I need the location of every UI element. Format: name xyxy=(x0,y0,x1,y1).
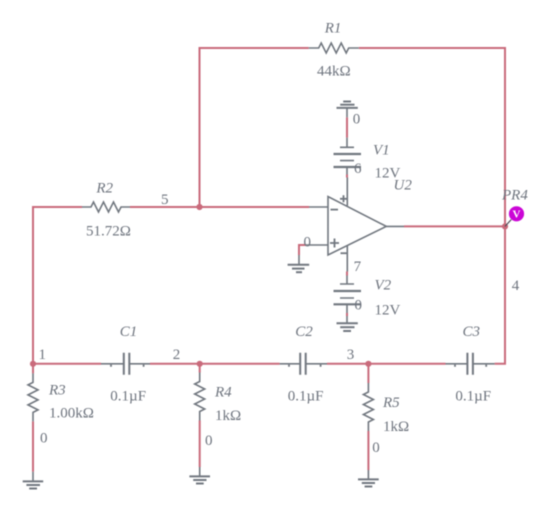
ground below R5 xyxy=(358,470,379,487)
svg-text:12V: 12V xyxy=(375,303,401,319)
op-amp U2 xyxy=(306,178,404,272)
pin stub inverting input xyxy=(309,206,328,208)
svg-text:0: 0 xyxy=(40,431,48,447)
svg-text:C1: C1 xyxy=(120,324,138,340)
svg-text:0: 0 xyxy=(372,440,380,456)
wire R2 row left segment + left column down to node 1 xyxy=(33,207,101,364)
ground below V2 xyxy=(337,316,358,331)
svg-text:PR4: PR4 xyxy=(501,188,528,204)
svg-text:5: 5 xyxy=(161,192,169,208)
wire R3 top stub xyxy=(32,364,34,374)
battery V1 xyxy=(334,138,362,175)
wire op-amp to V2 xyxy=(346,272,348,276)
svg-text:0.1µF: 0.1µF xyxy=(455,388,491,404)
svg-text:0.1µF: 0.1µF xyxy=(110,388,146,404)
svg-text:V: V xyxy=(513,209,521,221)
resistor R1 xyxy=(309,43,359,53)
capacitor C3 xyxy=(446,353,495,375)
svg-text:51.72Ω: 51.72Ω xyxy=(86,224,131,240)
node 1 junction dot xyxy=(30,361,36,367)
wire R5 top stub xyxy=(367,364,369,383)
probe PR4 xyxy=(505,206,524,226)
op-amp plus supply marking xyxy=(340,195,347,202)
wire top loop left: node5 up and over to R1 xyxy=(200,48,309,208)
wire top ground to V1 xyxy=(346,117,348,137)
resistor R3 xyxy=(28,373,38,421)
capacitor pin ticks C3 xyxy=(455,365,486,367)
wire R3 to ground xyxy=(32,421,34,471)
svg-text:1kΩ: 1kΩ xyxy=(215,408,241,424)
ground above V1 (inverted) xyxy=(337,102,358,118)
wire R5 to ground xyxy=(367,431,369,470)
pin stub positive supply xyxy=(346,178,348,206)
svg-text:3: 3 xyxy=(347,347,355,363)
wire top loop right: R1 over and down to bottom right corner xyxy=(359,48,505,364)
ground below R3 xyxy=(23,472,44,489)
svg-text:R4: R4 xyxy=(214,385,232,401)
ground below R4 xyxy=(189,467,210,484)
wire V2 to ground xyxy=(346,313,348,316)
op-amp minus supply marking xyxy=(341,252,347,254)
svg-text:V2: V2 xyxy=(375,278,392,294)
node 3 junction dot xyxy=(365,361,371,367)
svg-text:0: 0 xyxy=(353,111,361,127)
svg-text:0: 0 xyxy=(205,433,213,449)
svg-text:1.00kΩ: 1.00kΩ xyxy=(49,406,94,422)
svg-text:C2: C2 xyxy=(295,324,313,340)
pin stub negative supply xyxy=(346,246,348,272)
node 2 junction dot xyxy=(197,361,203,367)
node PR4 junction dot xyxy=(502,223,508,229)
svg-text:C3: C3 xyxy=(463,324,481,340)
svg-text:1: 1 xyxy=(39,347,47,363)
wire V1 to op-amp supply xyxy=(346,175,348,178)
wire bottom row segment 2 (node 2) xyxy=(150,363,280,365)
svg-text:2: 2 xyxy=(173,347,181,363)
op-amp plus input marking xyxy=(330,239,339,248)
capacitor pin ticks C1 xyxy=(111,365,144,367)
wire op-amp output to node 4 xyxy=(404,225,505,227)
svg-text:R5: R5 xyxy=(382,395,400,411)
capacitor C2 xyxy=(280,353,327,375)
battery V2 xyxy=(334,276,362,314)
svg-text:R1: R1 xyxy=(324,21,342,37)
wire op-amp plus input to ground corner xyxy=(299,245,306,255)
svg-text:0: 0 xyxy=(304,235,312,251)
resistor R4 xyxy=(195,373,205,421)
svg-text:R2: R2 xyxy=(95,181,113,197)
resistor R2 xyxy=(82,202,130,212)
capacitor C1 xyxy=(101,353,150,375)
wire bottom row segment 3 (node 3) xyxy=(327,363,446,365)
svg-text:0.1µF: 0.1µF xyxy=(288,388,324,404)
wire R4 top stub xyxy=(199,364,201,373)
pin stub non-inverting input xyxy=(306,244,328,246)
wire R2 row right segment to op-amp (node 5) xyxy=(130,206,309,208)
ground at op-amp plus input xyxy=(288,255,310,272)
svg-text:R3: R3 xyxy=(48,383,66,399)
svg-text:1kΩ: 1kΩ xyxy=(383,419,409,435)
svg-text:0: 0 xyxy=(355,298,363,314)
node 5 junction dot xyxy=(196,204,202,210)
capacitor pin ticks C2 xyxy=(289,365,321,367)
svg-text:44kΩ: 44kΩ xyxy=(317,63,351,79)
svg-text:7: 7 xyxy=(354,259,362,275)
svg-text:U2: U2 xyxy=(394,178,413,194)
resistor R5 xyxy=(363,383,373,431)
svg-text:V1: V1 xyxy=(373,143,390,159)
pin stub output xyxy=(386,225,404,227)
wire R4 to ground xyxy=(199,421,201,468)
svg-text:6: 6 xyxy=(354,161,362,177)
op-amp minus input marking xyxy=(331,209,339,211)
svg-text:4: 4 xyxy=(512,278,520,294)
